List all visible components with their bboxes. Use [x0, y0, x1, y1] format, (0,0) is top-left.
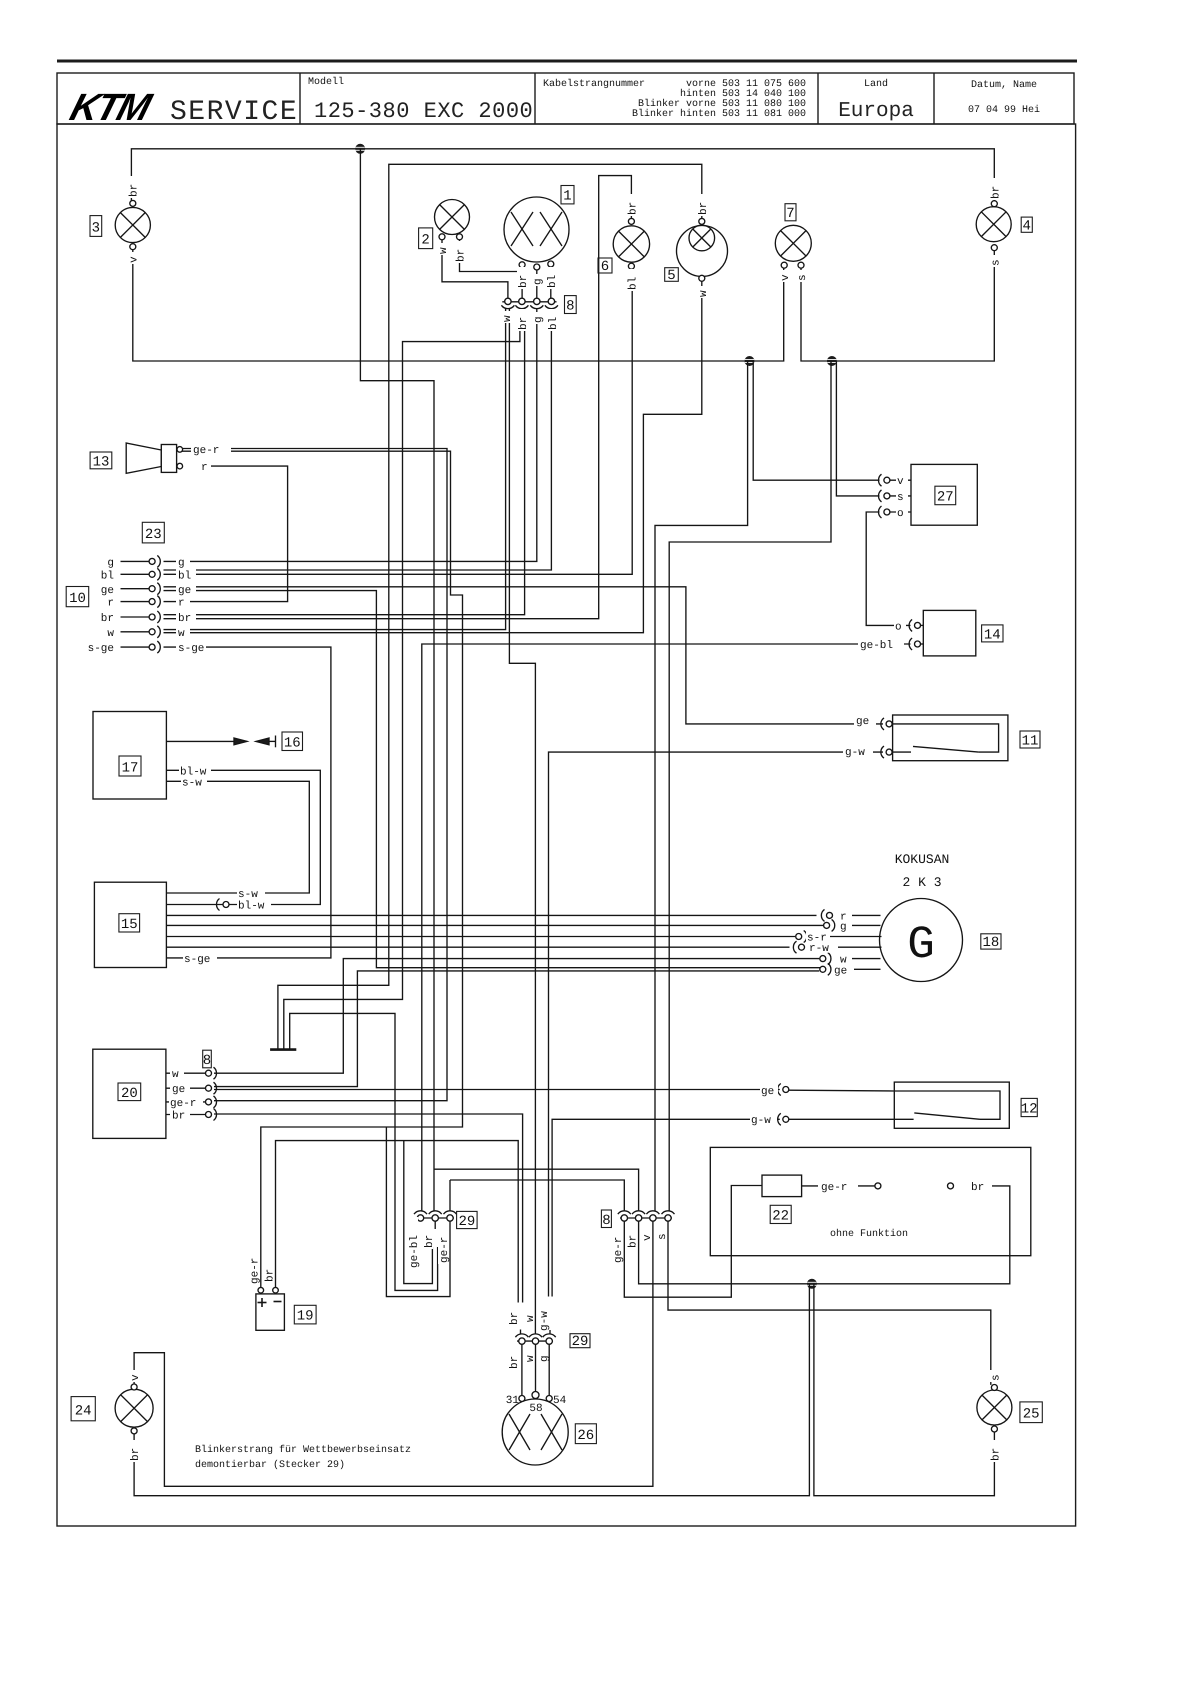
svg-text:ge: ge	[761, 1086, 774, 1098]
label v lamp24	[129, 1370, 142, 1382]
box 17	[93, 712, 166, 800]
wire bl below 8 to 23	[164, 309, 552, 571]
wire 20 ge to flasher12	[214, 1089, 780, 1091]
svg-text:w: w	[107, 628, 114, 640]
label box 29	[457, 1211, 478, 1230]
battery 19	[256, 1294, 285, 1330]
label box 7	[785, 204, 796, 222]
label v lamp7	[779, 270, 792, 282]
wire s branch dot2 to 8right	[669, 361, 831, 1212]
flasher box 11	[893, 715, 1008, 761]
connector 20 br	[206, 1112, 212, 1118]
svg-text:5: 5	[667, 268, 675, 284]
svg-text:g: g	[533, 278, 545, 285]
svg-text:g: g	[533, 316, 545, 323]
wire 14 ge-bl to 29left	[422, 644, 911, 1212]
wire 29left br pair A to battery minus line	[404, 1141, 433, 1284]
wire br bus branch to 8right	[434, 1169, 639, 1211]
svg-text:ohne Funktion: ohne Funktion	[830, 1228, 908, 1240]
label box 27	[935, 486, 956, 505]
svg-text:ge-bl: ge-bl	[409, 1235, 421, 1268]
lamp 1	[504, 197, 569, 262]
label box 23	[142, 522, 164, 543]
label br lamp6	[627, 194, 640, 216]
connector 12 ge	[783, 1087, 789, 1093]
wire lamp25 br to dot3	[814, 1284, 995, 1496]
label box 11	[1020, 731, 1040, 750]
svg-text:26: 26	[577, 1428, 594, 1444]
connector 20 ge	[206, 1085, 212, 1091]
svg-text:2: 2	[421, 233, 429, 249]
wire horn ge-r 1 to 20	[182, 449, 447, 1101]
svg-text:Land: Land	[864, 78, 888, 90]
schematic outer border	[57, 124, 1076, 1526]
lamp 6	[613, 226, 649, 262]
svg-text:Modell: Modell	[308, 76, 344, 88]
label g lamp1	[532, 274, 545, 286]
labels 20 rows	[170, 1068, 184, 1082]
wire generator ge2 to 20	[214, 971, 819, 1087]
lamp 2	[435, 200, 470, 235]
svg-text:br: br	[130, 1448, 142, 1461]
wire lamp24 br to dot3	[134, 1284, 809, 1496]
box 14	[923, 610, 976, 656]
wire lamp7 s to lamp4 s netR	[801, 250, 994, 361]
lamp 3	[115, 207, 150, 242]
connector 27 v	[884, 477, 890, 483]
connector 20 w	[206, 1070, 212, 1076]
wire lamp5 br to ground	[278, 164, 702, 1048]
labels generator pins	[838, 910, 852, 924]
wires 20 box to connectors	[166, 1072, 206, 1074]
svg-text:ge: ge	[856, 716, 869, 728]
label bl-w 15	[237, 899, 271, 913]
wire 23 s-ge to 15	[164, 647, 331, 958]
wire lamp2 br join lamp1 br	[460, 239, 521, 271]
header divider Kabelstrang	[534, 73, 536, 124]
svg-text:Blinker hinten 503 11 081 000: Blinker hinten 503 11 081 000	[632, 108, 806, 120]
wire horn ge-r 2 to battery plus	[182, 451, 463, 1287]
svg-text:ge-r: ge-r	[439, 1237, 451, 1263]
svg-text:19: 19	[297, 1309, 314, 1325]
wire lamp1 bl to pin	[550, 267, 552, 299]
svg-text:20: 20	[121, 1086, 138, 1102]
KTM logo	[65, 87, 157, 129]
svg-text:g: g	[178, 558, 185, 570]
svg-text:15: 15	[121, 917, 138, 933]
connector 23 right labels	[176, 556, 190, 570]
svg-text:ge: ge	[834, 965, 847, 977]
node dot2 netR	[827, 356, 837, 366]
connector 29 left	[414, 1211, 457, 1221]
svg-text:r: r	[107, 598, 114, 610]
label s lamp4	[990, 255, 1003, 267]
box 22 ohne Funktion	[710, 1147, 1031, 1255]
connector 12 g-w	[783, 1116, 789, 1122]
wire lamp26 br single to connector	[520, 1330, 522, 1335]
label br lamp1	[517, 267, 530, 289]
label s lamp25	[990, 1370, 1003, 1382]
svg-text:br: br	[991, 1448, 1003, 1461]
svg-text:bl: bl	[101, 571, 114, 583]
svg-text:ge-r: ge-r	[613, 1237, 625, 1263]
wire 23 w2 to lamp5	[164, 281, 702, 633]
connector 27 o	[884, 509, 890, 515]
wire lamp2 w to connector8	[442, 239, 508, 298]
wire 23 ge1 to flasher11	[164, 587, 884, 724]
svg-text:br: br	[265, 1269, 277, 1282]
svg-text:31: 31	[506, 1395, 520, 1407]
svg-text:58: 58	[529, 1403, 542, 1415]
label br lamp4	[990, 178, 1003, 200]
svg-text:Kabelstrangnummer: Kabelstrangnummer	[543, 78, 645, 90]
wire 8right br below bus	[639, 1186, 1010, 1284]
svg-text:Europa: Europa	[838, 100, 914, 123]
connector 8 right	[618, 1211, 675, 1221]
label box 8	[565, 296, 577, 315]
svg-text:14: 14	[984, 628, 1001, 644]
label box 1	[561, 186, 574, 205]
svg-text:2 K 3: 2 K 3	[902, 875, 941, 890]
svg-text:g-w: g-w	[845, 747, 865, 759]
svg-text:r-w: r-w	[809, 943, 829, 955]
lamp 7	[775, 225, 811, 261]
label bl lamp6	[627, 269, 640, 291]
label box 4	[1021, 217, 1032, 234]
header divider Datum	[933, 73, 935, 124]
generator pins	[827, 912, 833, 918]
svg-text:8: 8	[203, 1053, 211, 1069]
label g-w 12	[750, 1114, 777, 1128]
svg-text:s: s	[657, 1233, 669, 1240]
wire ge-r link down to 29left pin	[449, 1180, 451, 1212]
wire v branch dot1 to 8right	[655, 361, 748, 1212]
left stub wires 23	[121, 560, 150, 562]
svg-text:23: 23	[145, 527, 162, 543]
svg-text:g: g	[539, 1355, 551, 1362]
svg-text:ge-bl: ge-bl	[860, 640, 893, 652]
label box 15	[119, 914, 140, 933]
label br 22	[968, 1179, 992, 1194]
label box 19	[294, 1305, 316, 1324]
wire 22 fuse to open terminal	[802, 1185, 875, 1187]
svg-text:w: w	[525, 1355, 537, 1362]
svg-text:27: 27	[937, 490, 954, 506]
label box 25	[1020, 1402, 1042, 1423]
wire 8right v below to lamp24	[134, 1222, 653, 1487]
wire 15 s-r row to generator	[166, 936, 795, 938]
svg-text:g: g	[840, 921, 847, 933]
svg-text:29: 29	[458, 1214, 475, 1230]
svg-text:KOKUSAN: KOKUSAN	[895, 852, 950, 867]
wire 23 bl2 to lamp6	[164, 269, 633, 574]
label box 10	[66, 587, 89, 608]
connector 11 ge	[881, 718, 884, 730]
label s lamp7	[796, 270, 809, 282]
svg-text:54: 54	[553, 1395, 567, 1407]
wire 20 br to lamp26 br2	[214, 1114, 523, 1303]
labels below connector 8 top	[501, 311, 514, 323]
ground symbol	[270, 1048, 296, 1051]
header divider Modell	[299, 73, 301, 124]
svg-text:br: br	[424, 1235, 436, 1248]
label ge-r 22 fuse	[818, 1179, 858, 1194]
svg-text:v: v	[130, 1374, 142, 1381]
svg-text:17: 17	[122, 761, 139, 777]
label ge 12	[760, 1084, 778, 1098]
labels below 29 left	[408, 1217, 421, 1269]
wire lamp1 br to pin	[521, 267, 523, 298]
connector 14 o	[915, 622, 921, 628]
connector 20 ge-r	[206, 1099, 212, 1105]
svg-text:br: br	[628, 1235, 640, 1248]
svg-text:br: br	[971, 1182, 984, 1194]
svg-text:bl: bl	[547, 275, 559, 288]
label box 2	[419, 228, 433, 249]
label box 8	[601, 1210, 611, 1229]
svg-text:o: o	[897, 508, 904, 520]
label box 5	[665, 268, 679, 284]
connector 14 ge-bl	[915, 641, 921, 647]
svg-text:br: br	[509, 1356, 521, 1369]
wire 8right s below to lamp25	[668, 1222, 991, 1385]
svg-text:r: r	[201, 462, 208, 474]
label br lamp25	[990, 1440, 1003, 1462]
wire 15 r row to generator	[166, 914, 816, 916]
wire 29left br pair B to ground	[290, 1013, 438, 1290]
wire 29left br pin stub	[434, 1222, 436, 1230]
title block top rule	[57, 60, 1077, 63]
svg-text:o: o	[895, 621, 902, 633]
svg-text:w: w	[525, 1315, 537, 1322]
label box 8	[203, 1050, 212, 1069]
svg-text:8: 8	[602, 1213, 610, 1229]
label ge 11	[854, 714, 876, 728]
spark gap 16	[166, 740, 234, 742]
fuse 22	[762, 1175, 802, 1197]
label box 24	[71, 1397, 95, 1421]
label box 17	[119, 756, 141, 777]
svg-text:11: 11	[1022, 734, 1039, 750]
svg-text:07 04 99 Hei: 07 04 99 Hei	[968, 104, 1040, 116]
label s 27	[896, 490, 908, 504]
wire br1 below 8 to ground	[284, 309, 520, 1049]
labels below 8 right	[612, 1226, 625, 1264]
label box 3	[90, 216, 102, 237]
box 15	[94, 882, 166, 967]
svg-text:br: br	[991, 186, 1003, 199]
label br lamp24	[129, 1440, 142, 1462]
svg-text:br: br	[456, 249, 468, 262]
label ge-r battery wire	[249, 1247, 262, 1285]
wire battery minus to lamp26 br1	[276, 1141, 519, 1303]
svg-text:ge: ge	[178, 585, 191, 597]
svg-text:10: 10	[69, 591, 86, 607]
label o 27	[896, 507, 908, 521]
label bl lamp1	[546, 267, 559, 289]
node dot top bus	[355, 144, 365, 154]
wire 17 s-w to 15	[166, 781, 309, 893]
lamp 26	[502, 1399, 568, 1465]
label w lamp5	[697, 286, 710, 298]
label g-w 11	[843, 746, 873, 760]
svg-text:br: br	[518, 317, 530, 330]
svg-text:r: r	[178, 598, 185, 610]
label box 18	[981, 934, 1001, 951]
vertical wire labels	[128, 176, 1003, 1462]
node dot3 br bus	[807, 1279, 817, 1289]
svg-text:g: g	[107, 558, 114, 570]
svg-text:24: 24	[75, 1404, 92, 1420]
wire top bus br lamp3-lamp4	[131, 149, 994, 204]
label v 27	[896, 475, 908, 489]
wire 15 g row to generator	[166, 924, 823, 926]
svg-text:KTM: KTM	[65, 87, 157, 129]
svg-text:v: v	[129, 256, 141, 263]
wire flasher12 g-w to lamp26	[552, 1119, 780, 1296]
wire flasher11 g-w to lamp26	[549, 752, 884, 1296]
svg-text:ge-r: ge-r	[193, 445, 219, 457]
wire br2 below 8 to 23	[164, 309, 525, 615]
svg-text:s-ge: s-ge	[184, 954, 210, 966]
svg-text:ge-r: ge-r	[250, 1258, 262, 1284]
svg-text:br: br	[518, 275, 530, 288]
svg-text:8: 8	[566, 299, 574, 315]
svg-text:br: br	[101, 613, 114, 625]
label br lamp5	[697, 194, 710, 216]
wire 23 r to horn	[164, 466, 288, 601]
label s-w 15	[237, 888, 265, 902]
wire 23 ge2 to generator	[164, 591, 821, 968]
label s-w 17	[181, 776, 207, 790]
number boxes	[66, 186, 1042, 1445]
svg-text:25: 25	[1023, 1407, 1040, 1423]
svg-text:125-380 EXC 2000: 125-380 EXC 2000	[314, 99, 533, 124]
svg-text:w: w	[178, 628, 185, 640]
wire w2 below 8 to lamp26	[509, 309, 535, 1335]
wire s branch dot2 to 27	[836, 361, 879, 496]
label w lamp2	[437, 243, 450, 255]
svg-text:g-w: g-w	[751, 1115, 771, 1127]
svg-text:SERVICE: SERVICE	[170, 97, 298, 128]
svg-text:v: v	[780, 274, 792, 281]
generator 18	[880, 899, 963, 982]
horn 13	[126, 443, 161, 473]
svg-text:br: br	[172, 1111, 185, 1123]
svg-text:22: 22	[772, 1209, 789, 1225]
node dot1 netL	[745, 356, 755, 366]
svg-text:bl: bl	[178, 571, 191, 583]
svg-text:bl: bl	[548, 317, 560, 330]
open terminal ge-r 22	[875, 1183, 881, 1189]
label box 6	[598, 258, 612, 275]
svg-text:bl: bl	[628, 277, 640, 290]
svg-text:s-w: s-w	[182, 777, 202, 789]
wire 29left ge-r below to battery line	[386, 1127, 450, 1297]
svg-text:6: 6	[601, 259, 609, 275]
svg-text:w: w	[698, 290, 710, 297]
svg-text:s: s	[991, 259, 1003, 266]
open terminal br 22	[948, 1183, 954, 1189]
connector 11 g-w	[881, 746, 884, 758]
label bl-w 17	[179, 765, 211, 779]
lamp 4	[976, 207, 1011, 242]
svg-text:4: 4	[1022, 219, 1030, 235]
wire ge-r link to 29left and 8right	[450, 1180, 624, 1212]
svg-text:Datum, Name: Datum, Name	[971, 80, 1037, 91]
connector 23	[121, 555, 161, 653]
svg-text:3: 3	[92, 221, 100, 237]
svg-text:12: 12	[1021, 1102, 1038, 1118]
label s-ge 15	[183, 952, 217, 966]
svg-text:w: w	[438, 247, 450, 254]
label ge-r horn	[191, 444, 231, 458]
svg-text:br: br	[698, 202, 710, 215]
svg-text:s-ge: s-ge	[178, 643, 204, 655]
label ge-bl 14	[858, 639, 904, 653]
flasher box 12	[894, 1082, 1009, 1128]
lamp 5	[677, 226, 728, 277]
label o 14	[894, 620, 906, 634]
connector inline 15 bl-w	[223, 902, 229, 908]
svg-text:br: br	[129, 184, 141, 197]
svg-text:13: 13	[93, 455, 110, 471]
svg-text:18: 18	[982, 935, 999, 951]
svg-text:bl-w: bl-w	[238, 901, 265, 913]
svg-text:ge-r: ge-r	[821, 1182, 847, 1194]
labels above 29 right	[508, 1304, 521, 1326]
label v lamp3	[128, 252, 141, 264]
svg-text:16: 16	[284, 736, 301, 752]
lamp 25	[977, 1390, 1012, 1425]
wire w1 below 8 to 23	[164, 309, 506, 630]
svg-text:29: 29	[572, 1334, 589, 1350]
header divider Land	[817, 73, 819, 124]
svg-text:s: s	[797, 274, 809, 281]
label br lamp2	[455, 241, 468, 263]
header box	[57, 73, 1074, 124]
label br lamp3	[128, 176, 141, 198]
svg-text:s-ge: s-ge	[88, 643, 114, 655]
svg-text:Blinkerstrang für Wettbewerbse: Blinkerstrang für Wettbewerbseinsatz	[195, 1444, 411, 1456]
svg-text:w: w	[502, 315, 514, 322]
svg-text:s: s	[991, 1374, 1003, 1381]
svg-text:1: 1	[563, 189, 571, 205]
label box 22	[770, 1205, 791, 1224]
label box 20	[118, 1083, 141, 1102]
label br battery wire	[264, 1261, 277, 1283]
label box 12	[1021, 1098, 1038, 1117]
svg-text:s: s	[897, 492, 904, 504]
wire lamp1 g to pin	[536, 270, 538, 299]
svg-text:ge: ge	[172, 1084, 185, 1096]
connector 8 top	[501, 298, 558, 308]
label box 16	[282, 732, 303, 752]
svg-text:v: v	[642, 1234, 654, 1241]
wire v branch dot1 to 27	[753, 361, 879, 480]
wire 29right pins to lamp26	[521, 1345, 523, 1396]
svg-text:demontierbar (Stecker 29): demontierbar (Stecker 29)	[195, 1459, 345, 1471]
wire br bus junction down to connectors	[360, 149, 434, 1212]
connector 27 s	[884, 493, 890, 499]
svg-text:br: br	[178, 613, 191, 625]
svg-text:7: 7	[786, 206, 794, 222]
box 27	[911, 464, 977, 525]
svg-text:br: br	[628, 202, 640, 215]
horizontal wire labels	[88, 444, 992, 1194]
wire 27 o to 14	[866, 512, 910, 625]
svg-text:v: v	[897, 476, 904, 488]
